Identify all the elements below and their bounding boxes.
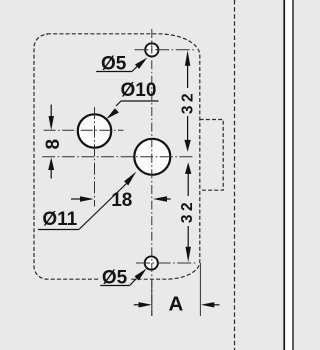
dimension A right arrow <box>201 302 220 307</box>
hole Ø10 <box>78 114 111 147</box>
svg-text:A: A <box>168 292 183 315</box>
label Ø5 bottom leader <box>100 269 146 286</box>
dimension A right extension line <box>199 263 201 316</box>
page right margin white strip <box>285 0 294 350</box>
svg-text:18: 18 <box>111 190 132 211</box>
table column rule left <box>283 0 285 350</box>
mounting plate outline (dashed rounded rectangle) <box>34 34 200 279</box>
plate side tab (dashed) <box>200 120 224 191</box>
svg-text:Ø11: Ø11 <box>42 209 77 230</box>
bottom hole horizontal centerline <box>136 262 197 264</box>
svg-text:Ø5: Ø5 <box>102 268 128 289</box>
label Ø11 leader <box>38 172 136 230</box>
cabinet side edge (dashed vertical line) <box>234 0 236 350</box>
dimension 32 top line with arrows <box>184 50 190 152</box>
svg-text:8: 8 <box>43 139 64 150</box>
vertical centerline through holes (dash-dot) <box>151 29 153 316</box>
hole Ø5 bottom <box>145 256 158 269</box>
dimension A left arrow <box>134 302 152 307</box>
hole 10mm vertical centerline / extension for 18 dim <box>94 107 96 207</box>
dimension 32 bottom line with arrows <box>185 162 191 262</box>
hole 11mm horizontal centerline <box>42 156 192 158</box>
svg-text:32: 32 <box>179 90 196 114</box>
hole Ø11 <box>134 139 170 175</box>
label Ø5 top leader <box>96 58 147 72</box>
svg-text:Ø5: Ø5 <box>101 54 127 75</box>
dimension 18 left arrow <box>71 196 94 201</box>
dimension 8 lower arrow <box>48 158 54 179</box>
table column rule right <box>292 0 293 350</box>
hole Ø5 top <box>145 43 158 56</box>
top hole horizontal centerline <box>135 49 197 51</box>
svg-text:32: 32 <box>179 199 196 223</box>
hole 10mm horizontal centerline <box>44 129 124 131</box>
dimension 18 right arrow <box>153 196 171 201</box>
dimension A left extension line (hole centerline solid part) <box>151 281 153 316</box>
label Ø10 leader <box>106 101 158 119</box>
svg-text:Ø10: Ø10 <box>121 80 157 101</box>
dimension 8 upper arrow <box>49 105 54 131</box>
label Ø5 bottom background <box>99 268 130 285</box>
